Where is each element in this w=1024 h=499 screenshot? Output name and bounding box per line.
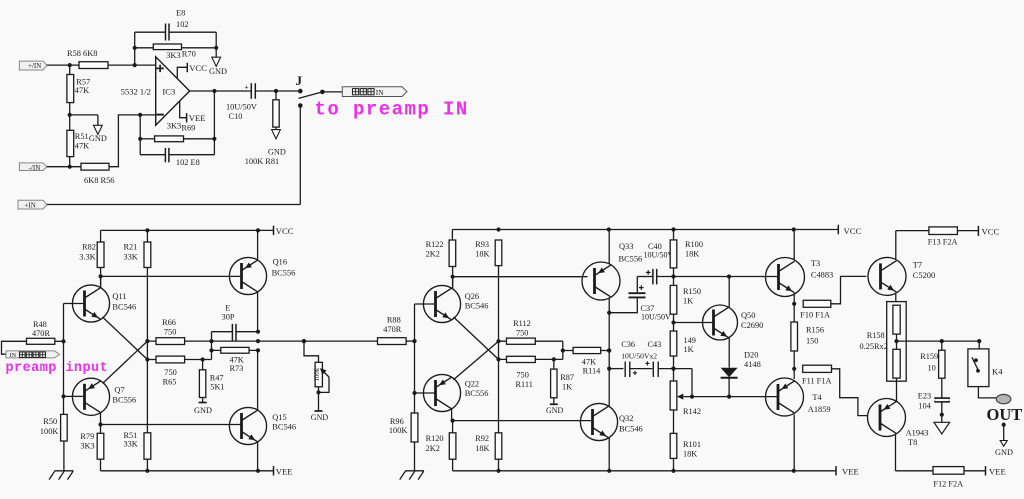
svg-text:VCC: VCC [982,226,1000,236]
svg-text:F12 F2A: F12 F2A [933,480,963,489]
svg-text:E23: E23 [918,391,931,400]
svg-text:OUT: OUT [987,405,1023,424]
svg-text:R158: R158 [867,331,885,340]
svg-text:102 E8: 102 E8 [176,158,200,167]
svg-text:A1943: A1943 [906,429,929,438]
svg-text:3K3: 3K3 [166,51,180,60]
svg-text:R101: R101 [683,440,701,449]
svg-text:GND: GND [89,134,107,143]
svg-text:10U/50V: 10U/50V [226,102,257,111]
svg-text:5532 1/2: 5532 1/2 [121,87,151,97]
svg-text:VCC: VCC [276,226,294,236]
svg-text:GND: GND [311,413,329,422]
svg-text:5K1: 5K1 [210,383,224,392]
svg-text:10U/50Vx2: 10U/50Vx2 [621,351,657,360]
svg-text:T7: T7 [913,260,922,269]
svg-text:150: 150 [806,336,818,345]
svg-text:100K: 100K [389,426,407,435]
svg-text:R93: R93 [475,240,489,249]
svg-text:BC546: BC546 [272,423,296,432]
svg-text:18K: 18K [475,444,489,453]
svg-text:R66: R66 [162,318,176,327]
svg-text:T3: T3 [811,259,820,268]
svg-text:preamp input: preamp input [6,361,109,376]
svg-text:E: E [225,304,230,313]
svg-text:1K: 1K [684,345,694,354]
svg-text:R150: R150 [683,287,701,296]
svg-text:A1859: A1859 [808,405,831,414]
svg-text:GND: GND [194,406,212,415]
svg-text:BC556: BC556 [112,395,136,404]
svg-text:F11 F1A: F11 F1A [802,377,831,386]
svg-text:R111: R111 [516,380,533,389]
svg-text:0.25Rx2: 0.25Rx2 [860,342,888,351]
svg-text:3.3K: 3.3K [79,252,95,261]
svg-text:C40: C40 [648,242,662,251]
svg-text:IC3: IC3 [162,86,175,96]
svg-text:VEE: VEE [842,466,859,476]
svg-text:GND: GND [546,406,564,415]
svg-text:to preamp IN: to preamp IN [315,99,469,121]
svg-text:4148: 4148 [744,360,761,369]
svg-text:C2690: C2690 [741,321,763,330]
svg-text:BC556: BC556 [465,389,489,398]
svg-text:47K: 47K [75,141,89,150]
svg-text:C43: C43 [648,340,662,349]
svg-text:BC556: BC556 [272,269,296,278]
svg-text:K4: K4 [992,366,1003,376]
svg-text:R112: R112 [513,319,531,328]
svg-text:2K2: 2K2 [426,249,440,258]
svg-text:-/IN: -/IN [29,164,41,172]
svg-text:R79: R79 [80,432,94,441]
svg-text:R73: R73 [230,364,244,373]
svg-text:100K: 100K [40,427,58,436]
svg-text:VEE: VEE [989,466,1006,476]
svg-text:GND: GND [268,147,286,156]
svg-text:2K2: 2K2 [426,444,440,453]
svg-text:VCC: VCC [844,226,862,236]
svg-text:Q50: Q50 [741,311,755,320]
svg-text:Q16: Q16 [273,258,287,267]
svg-text:Q15: Q15 [272,413,286,422]
svg-text:1K: 1K [562,382,572,391]
svg-text:30P: 30P [222,313,235,322]
svg-text:GND: GND [209,67,227,76]
svg-text:R65: R65 [163,378,177,387]
svg-text:3K3: 3K3 [167,122,181,131]
svg-text:R120: R120 [426,434,444,443]
svg-text:R92: R92 [475,434,489,443]
svg-text:+/IN: +/IN [28,62,41,70]
svg-text:GND: GND [995,448,1013,457]
svg-text:BC546: BC546 [112,302,136,311]
svg-text:750: 750 [164,368,176,377]
svg-text:BC546: BC546 [619,424,643,433]
svg-text:R58 6K8: R58 6K8 [67,49,97,58]
svg-text:Q26: Q26 [465,292,479,301]
svg-text:Q33: Q33 [619,242,633,251]
svg-text:750: 750 [516,329,528,338]
svg-text:E8: E8 [176,9,185,18]
svg-text:R50: R50 [43,417,57,426]
svg-text:C10: C10 [229,112,243,121]
svg-text:750: 750 [164,328,176,337]
svg-text:VCC: VCC [189,63,207,73]
svg-text:R70: R70 [182,50,196,59]
svg-text:10: 10 [928,363,936,372]
svg-text:10U/50V: 10U/50V [641,313,671,322]
svg-text:R82: R82 [82,242,96,251]
svg-text:C37: C37 [641,304,655,313]
svg-text:C36: C36 [621,340,635,349]
svg-text:104: 104 [918,401,931,410]
svg-text:J: J [296,73,303,88]
svg-text:BC546: BC546 [465,302,489,311]
svg-text:BC556: BC556 [619,255,643,264]
svg-text:R51: R51 [75,132,89,141]
svg-text:+IN: +IN [25,202,36,210]
svg-text:1K: 1K [683,296,693,305]
svg-text:IN: IN [10,352,17,359]
svg-text:470R: 470R [32,329,50,338]
svg-text:100k: 100k [314,367,321,381]
svg-text:470R: 470R [383,325,401,334]
svg-text:R88: R88 [387,315,401,324]
svg-text:102: 102 [176,20,189,29]
svg-text:6K8 R56: 6K8 R56 [84,176,114,185]
svg-text:Q32: Q32 [619,414,633,423]
svg-text:R96: R96 [390,417,404,426]
svg-text:VEE: VEE [276,466,293,476]
svg-text:R21: R21 [124,242,138,251]
svg-text:R87: R87 [560,373,574,382]
svg-text:F10 F1A: F10 F1A [800,310,830,319]
svg-text:D20: D20 [744,350,758,359]
svg-text:+: + [244,82,248,91]
svg-text:149: 149 [684,336,696,345]
svg-text:R156: R156 [806,325,824,334]
svg-text:Q7: Q7 [114,385,124,394]
svg-text:47K: 47K [582,358,596,367]
svg-text:T8: T8 [908,438,917,447]
svg-text:R114: R114 [583,366,602,375]
svg-text:47K: 47K [230,355,244,364]
svg-text:T4: T4 [812,393,822,402]
svg-text:C5200: C5200 [913,271,935,280]
svg-text:R100: R100 [685,240,703,249]
svg-text:33K: 33K [124,439,138,448]
svg-text:R122: R122 [426,240,444,249]
svg-text:33K: 33K [124,252,138,261]
svg-text:Q22: Q22 [465,379,479,388]
svg-text:3K3: 3K3 [80,442,94,451]
svg-text:R142: R142 [683,407,701,416]
svg-text:18K: 18K [685,249,699,258]
svg-text:Q11: Q11 [112,292,126,301]
svg-text:10U/50V: 10U/50V [644,251,674,260]
svg-text:R69: R69 [181,123,195,132]
svg-text:C4883: C4883 [811,271,833,280]
svg-text:47K: 47K [75,86,89,95]
svg-text:F13 F2A: F13 F2A [928,238,958,247]
svg-text:18K: 18K [475,249,489,258]
svg-text:100K R81: 100K R81 [245,157,279,166]
svg-text:750: 750 [516,370,528,379]
svg-text:R48: R48 [33,320,47,329]
svg-text:R47: R47 [210,374,224,383]
svg-text:IN: IN [376,88,384,97]
svg-text:R159: R159 [920,352,938,361]
svg-text:18K: 18K [683,449,697,458]
svg-text:VEE: VEE [189,113,206,123]
